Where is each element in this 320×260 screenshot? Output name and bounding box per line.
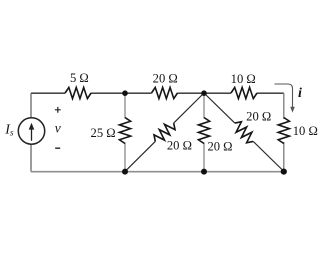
current arrow i (top right) [275,84,293,108]
wire: bottom rail [31,171,284,173]
svg-text:v: v [55,120,61,135]
resistor R 20ohm (vertical middle at x=204) [198,118,209,144]
svg-text:i: i [298,86,302,101]
resistor R 5ohm (top left) [65,87,91,98]
node dot top x=125 [122,90,128,96]
resistor R 20ohm (left diagonal) [151,119,177,145]
svg-text:10 Ω: 10 Ω [231,72,256,86]
wire: left diagonal plain segments [125,93,204,172]
resistor R 20ohm (right diagonal) [231,119,257,145]
resistor R 10ohm (vertical right at x=284) [278,118,289,144]
svg-text:20 Ω: 20 Ω [207,140,232,154]
node dot bottom x=125 [122,169,128,175]
svg-text:20 Ω: 20 Ω [167,138,192,152]
svg-text:20 Ω: 20 Ω [153,72,178,86]
label minus [55,147,60,149]
svg-text:Is: Is [4,123,14,138]
node dot top x=204 [201,90,207,96]
wire: right vertical leads at x=284 [283,93,285,172]
svg-text:5 Ω: 5 Ω [70,71,89,85]
svg-text:20 Ω: 20 Ω [246,110,271,124]
label plus [55,107,61,113]
wire: vertical leads at node x=204 [203,93,205,172]
svg-text:10 Ω: 10 Ω [293,124,318,138]
current source Is circle [18,118,44,144]
resistor R 20ohm (top middle) [152,87,178,98]
svg-text:25 Ω: 25 Ω [91,126,116,140]
node dot bottom x=284 [281,169,287,175]
node dot bottom x=204 [201,169,207,175]
wire: vertical leads at node x=125 [124,93,126,172]
wire: top rail segments [31,92,284,94]
current source arrow [31,127,33,141]
wire: right diagonal plain segments [204,93,284,172]
resistor R 25ohm (vertical at x=125) [119,118,130,144]
resistor R 10ohm (top right) [231,87,257,98]
wire: left vertical (source branch) [30,93,32,171]
